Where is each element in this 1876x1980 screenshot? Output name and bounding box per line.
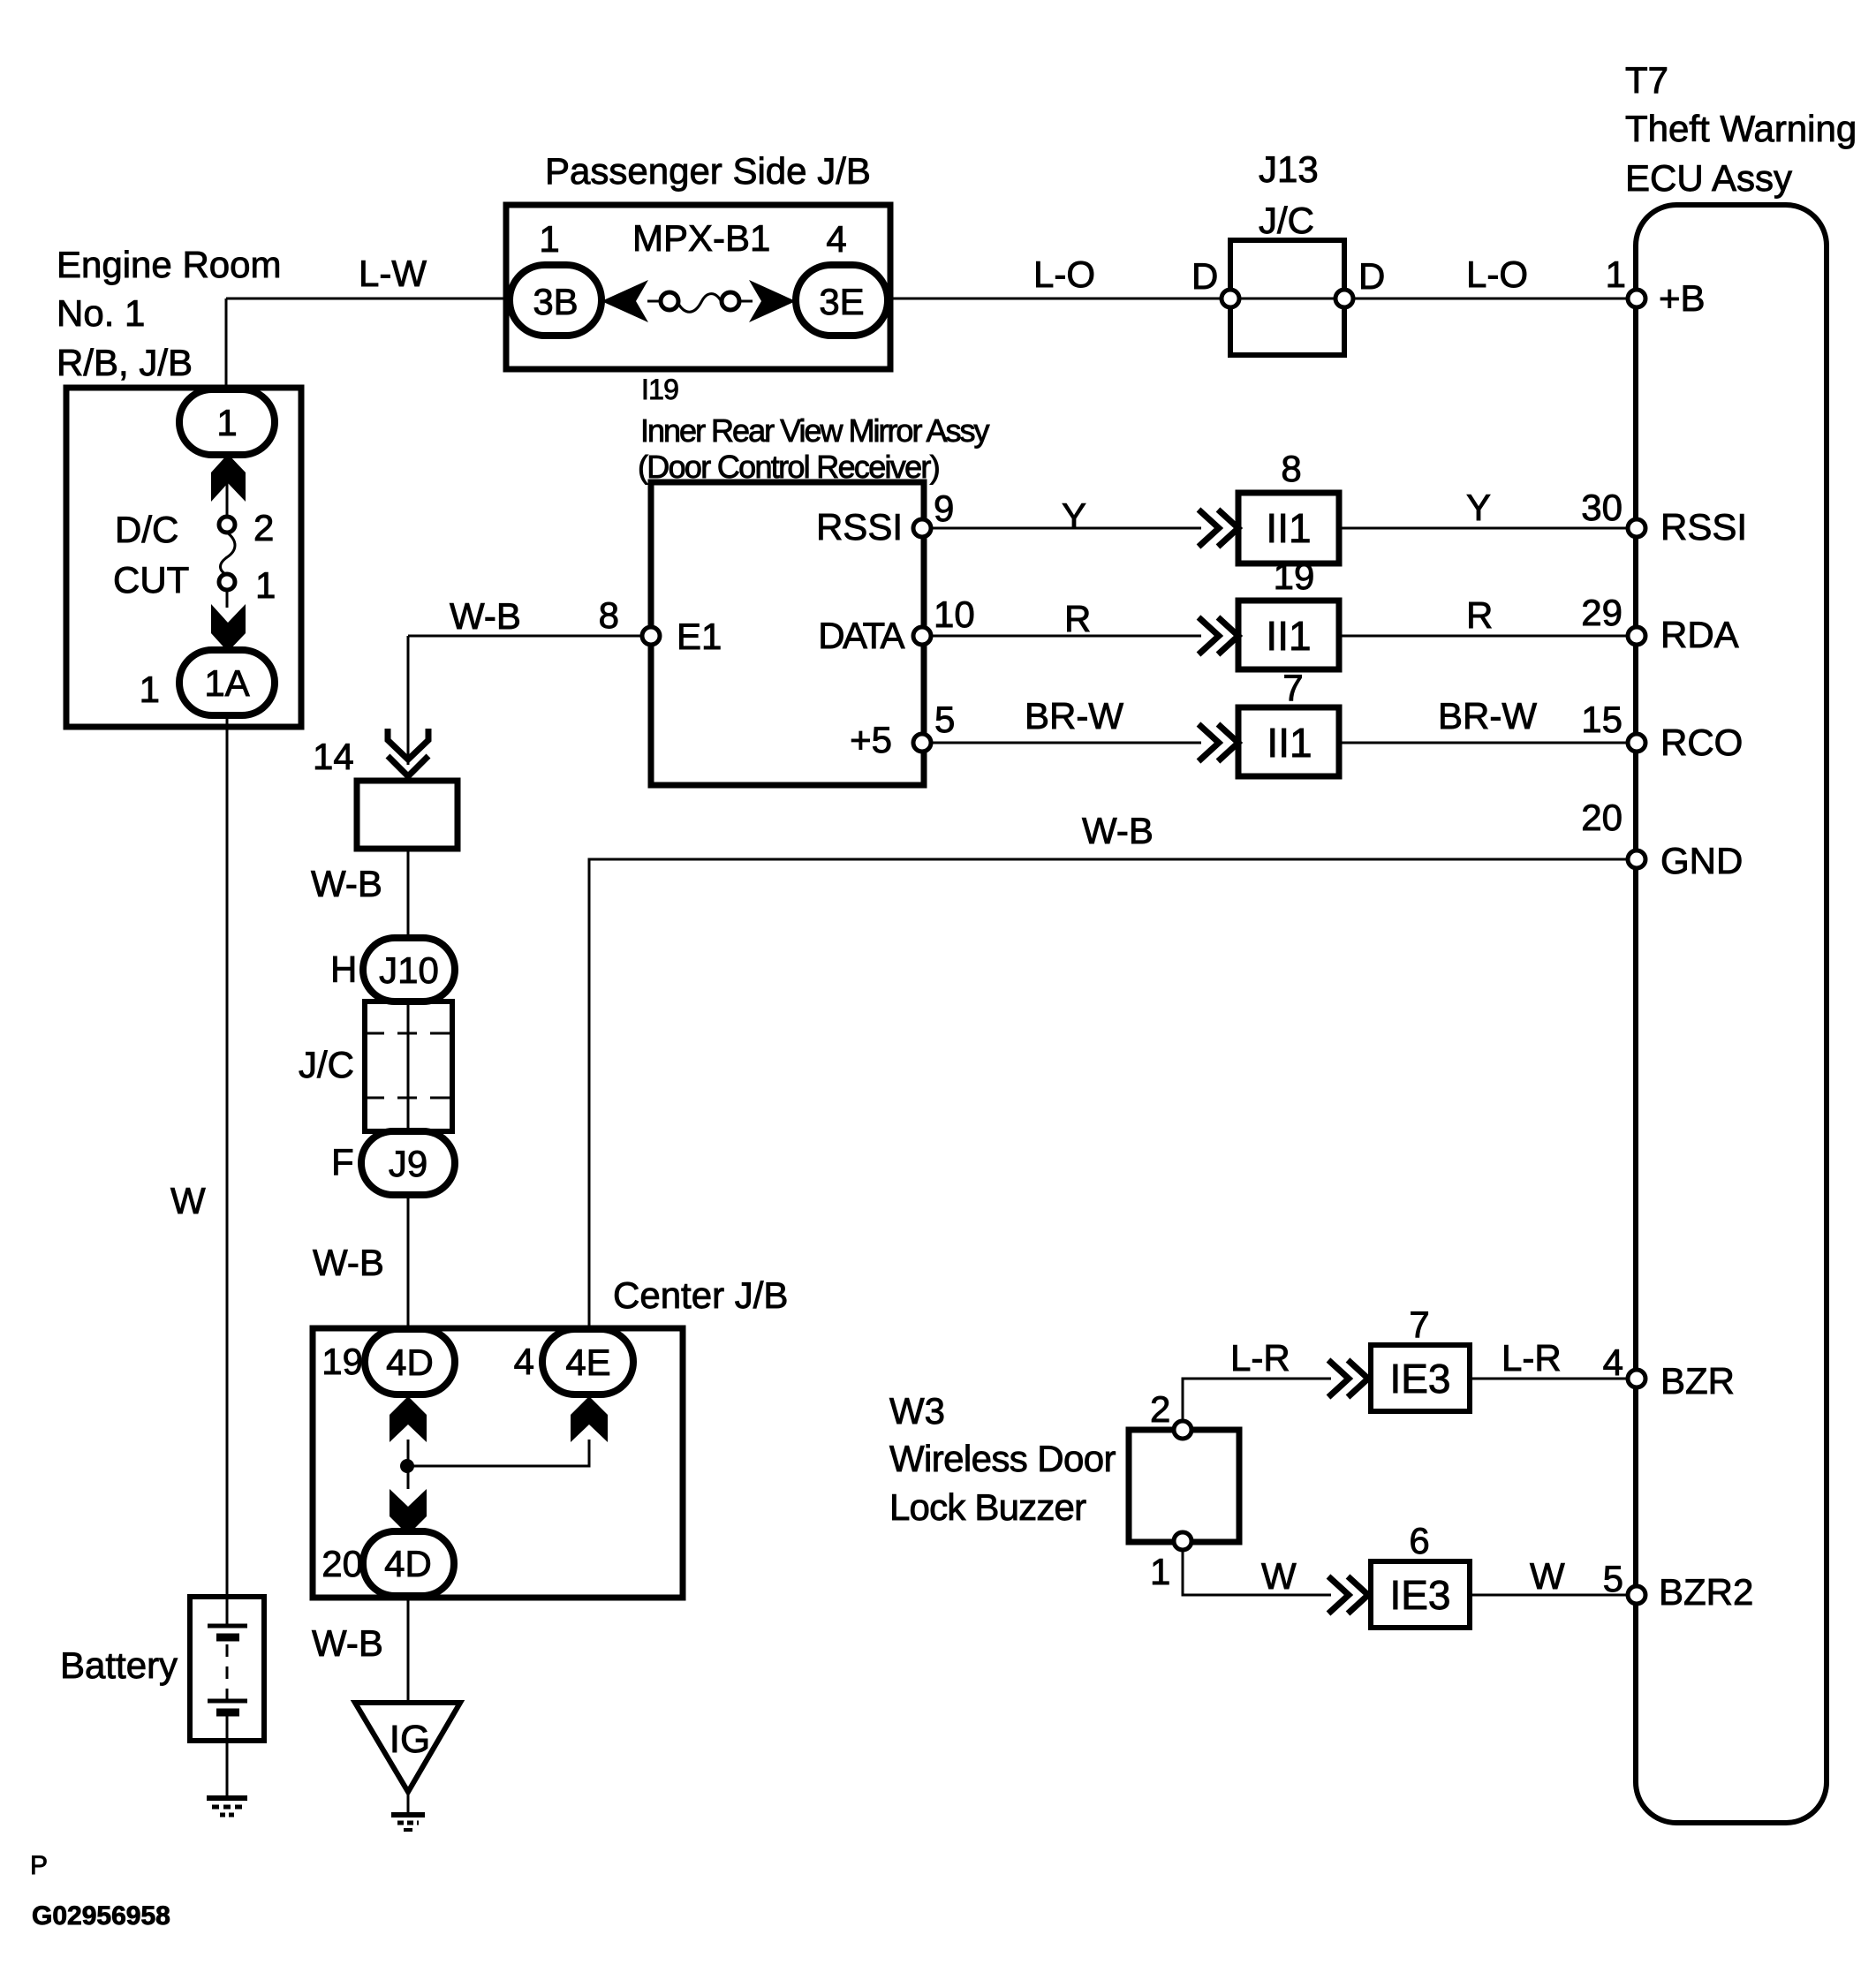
svg-text:4D: 4D	[384, 1543, 432, 1584]
chevrons before II1 row RSSI	[1199, 510, 1238, 547]
svg-text:L-W: L-W	[359, 253, 427, 294]
chevrons before II1 row RDA	[1199, 617, 1238, 654]
svg-text:RCO: RCO	[1660, 722, 1743, 763]
wire Y from II1 to ECU pin30	[1339, 527, 1630, 530]
svg-text:D/C: D/C	[115, 509, 178, 550]
battery dashed center	[226, 1644, 229, 1699]
oval connector 4E pin4	[542, 1329, 633, 1394]
Wireless Door Lock Buzzer box	[1129, 1430, 1239, 1542]
port circle ECU BZR2 pin5	[1628, 1586, 1645, 1604]
junction dot	[400, 1459, 414, 1473]
svg-text:RSSI: RSSI	[816, 506, 903, 548]
oval connector 1 top of D/C CUT	[179, 389, 275, 455]
Passenger Side J/B box	[506, 205, 890, 369]
J/C dashed line lower	[365, 1097, 452, 1100]
svg-text:II1: II1	[1267, 720, 1312, 766]
svg-text:20: 20	[321, 1543, 363, 1584]
open connector arrow above box 14	[388, 729, 428, 776]
chevrons before IE3 row BZR	[1328, 1360, 1368, 1397]
fuse circle right	[722, 292, 739, 310]
wire BR-W from +5 pin5 to II1	[931, 742, 1201, 744]
svg-text:Passenger Side J/B: Passenger Side J/B	[545, 150, 871, 192]
svg-text:J/C: J/C	[299, 1044, 354, 1085]
oval connector 1A bottom of D/C CUT	[179, 650, 275, 715]
port circle buzzer pin2	[1174, 1421, 1191, 1439]
svg-text:RSSI: RSSI	[1660, 506, 1747, 548]
IG fuse triangle	[355, 1703, 460, 1792]
svg-text:4: 4	[514, 1341, 534, 1382]
svg-text:II1: II1	[1266, 505, 1311, 551]
svg-text:W-B: W-B	[1082, 810, 1154, 851]
svg-text:Y: Y	[1466, 487, 1491, 528]
svg-text:G02956958: G02956958	[32, 1901, 170, 1931]
svg-text:CUT: CUT	[113, 559, 189, 601]
svg-text:2: 2	[253, 507, 274, 548]
fuse circle left	[661, 292, 678, 310]
arrow black down above 4D pin20	[390, 1489, 427, 1535]
svg-text:9: 9	[934, 487, 954, 529]
svg-text:4: 4	[1603, 1341, 1623, 1383]
svg-text:GND: GND	[1660, 840, 1743, 881]
wire buzzer pin2 to IE3	[1183, 1379, 1331, 1422]
svg-text:J13: J13	[1259, 148, 1319, 190]
wire R from II1 to ECU pin29	[1339, 635, 1630, 638]
svg-text:R: R	[1466, 594, 1493, 636]
wire W-B to E1 pin 8	[408, 636, 643, 765]
wire inside D/C CUT switch	[226, 454, 229, 608]
svg-text:3B: 3B	[533, 281, 578, 322]
oval connector J10	[363, 938, 455, 1001]
wire L-R from IE3 to ECU pin4	[1470, 1378, 1630, 1380]
fuse squiggle	[677, 294, 722, 313]
svg-text:IE3: IE3	[1389, 1356, 1450, 1402]
switch squiggle	[221, 533, 236, 575]
svg-text:1: 1	[255, 564, 276, 606]
svg-text:ECU Assy: ECU Assy	[1625, 157, 1792, 199]
svg-text:L-R: L-R	[1502, 1337, 1562, 1379]
svg-text:J/C: J/C	[1259, 200, 1314, 241]
svg-text:W-B: W-B	[312, 1622, 383, 1664]
IE3 box row BZR2	[1371, 1561, 1470, 1628]
port circle mirror +5 pin5	[913, 734, 931, 752]
svg-text:1: 1	[539, 218, 559, 260]
D/C CUT box	[66, 388, 301, 727]
svg-text:10: 10	[934, 593, 975, 635]
svg-text:RDA: RDA	[1660, 614, 1739, 655]
wire Y from RSSI pin9 to II1	[931, 527, 1201, 530]
svg-text:1: 1	[140, 669, 160, 710]
svg-text:5: 5	[1603, 1558, 1623, 1599]
oval connector 4D pin19	[365, 1329, 455, 1394]
arrow black left in MPX-B1	[601, 280, 648, 322]
svg-text:7: 7	[1282, 667, 1303, 708]
svg-text:D: D	[1191, 255, 1218, 297]
chevrons before IE3 row BZR2	[1328, 1576, 1368, 1613]
svg-text:W-B: W-B	[311, 863, 382, 904]
wire J/C center line	[407, 1001, 410, 1131]
J/C junction box	[365, 1001, 452, 1131]
svg-text:W: W	[1530, 1555, 1565, 1597]
svg-text:1: 1	[216, 402, 237, 443]
port circle mirror E1 pin8	[642, 627, 660, 645]
svg-text:I19: I19	[641, 374, 678, 405]
Theft Warning ECU Assy box	[1636, 205, 1827, 1823]
svg-text:D: D	[1358, 255, 1385, 297]
IG ground symbol	[391, 1812, 425, 1818]
switch contact circle 1	[219, 574, 235, 590]
svg-text:1: 1	[1606, 253, 1626, 295]
svg-text:BR-W: BR-W	[1025, 695, 1123, 737]
wire fuse link inside MPX-B1	[647, 300, 753, 303]
svg-text:+5: +5	[850, 719, 892, 760]
port circle J13 right D	[1335, 290, 1353, 307]
svg-text:W: W	[170, 1180, 206, 1221]
wire 4D to junction to arrow	[407, 1440, 410, 1489]
port circle ECU RSSI pin30	[1628, 519, 1645, 537]
wire L-O from J13 to +B pin1	[1352, 298, 1630, 300]
svg-text:15: 15	[1581, 699, 1623, 740]
svg-text:1: 1	[1150, 1551, 1170, 1592]
svg-text:L-O: L-O	[1466, 253, 1528, 295]
IE3 box row BZR	[1371, 1345, 1470, 1411]
wire vertical into D/C CUT oval 1	[225, 299, 228, 394]
II1 box row RSSI	[1238, 493, 1339, 563]
svg-text:MPX-B1: MPX-B1	[632, 217, 770, 259]
wire buzzer pin1 to IE3	[1183, 1549, 1331, 1595]
svg-text:J9: J9	[389, 1143, 427, 1184]
svg-text:E1: E1	[677, 616, 722, 657]
wire inside J13	[1238, 298, 1336, 300]
svg-text:29: 29	[1581, 592, 1623, 633]
Inner Rear View Mirror box	[651, 482, 924, 785]
oval connector 3E	[796, 265, 888, 336]
svg-text:(Door Control Receiver): (Door Control Receiver)	[638, 449, 939, 485]
svg-text:T7: T7	[1625, 59, 1668, 101]
port circle mirror RSSI pin9	[913, 519, 931, 537]
svg-text:W-B: W-B	[450, 595, 521, 637]
svg-text:4D: 4D	[386, 1341, 434, 1383]
arrow black right in MPX-B1	[749, 280, 796, 322]
svg-text:14: 14	[313, 736, 354, 777]
svg-text:H: H	[330, 948, 357, 990]
arrow black up in D/C CUT	[211, 454, 246, 502]
svg-text:F: F	[331, 1141, 354, 1183]
svg-text:Wireless Door: Wireless Door	[889, 1438, 1116, 1479]
wire W-B from J9 to 4D	[407, 1195, 410, 1333]
svg-text:30: 30	[1581, 487, 1623, 528]
port circle buzzer pin1	[1174, 1532, 1191, 1550]
svg-text:5: 5	[934, 699, 955, 740]
Battery box	[190, 1597, 264, 1741]
svg-text:Lock Buzzer: Lock Buzzer	[889, 1486, 1086, 1528]
wire R from DATA pin10 to II1	[931, 635, 1201, 638]
svg-text:Y: Y	[1062, 495, 1086, 537]
arrow black up below 4E	[571, 1396, 608, 1442]
battery ground symbol	[207, 1795, 247, 1801]
wire W from IE3 to ECU pin5	[1470, 1594, 1630, 1597]
svg-text:W3: W3	[889, 1390, 945, 1432]
II1 box row RCO	[1238, 707, 1339, 776]
oval connector J9	[361, 1131, 455, 1195]
svg-text:J10: J10	[379, 949, 439, 991]
svg-text:L-O: L-O	[1033, 253, 1095, 295]
svg-text:BZR: BZR	[1660, 1360, 1735, 1402]
port circle ECU RCO pin15	[1628, 734, 1645, 752]
svg-text:Theft Warning: Theft Warning	[1625, 108, 1857, 149]
port circle ECU BZR pin4	[1628, 1370, 1645, 1387]
svg-text:R/B, J/B: R/B, J/B	[57, 342, 193, 383]
chevrons before II1 row RCO	[1199, 724, 1238, 761]
svg-text:20: 20	[1581, 797, 1623, 838]
svg-text:II1: II1	[1266, 613, 1311, 659]
svg-text:No. 1: No. 1	[57, 292, 145, 334]
svg-text:2: 2	[1150, 1388, 1170, 1430]
wire IG apex to ground	[407, 1792, 410, 1815]
svg-text:19: 19	[1274, 555, 1315, 597]
wire junction horizontal	[407, 1440, 589, 1466]
svg-text:Engine Room: Engine Room	[57, 244, 281, 285]
J/C dashed line upper	[365, 1032, 452, 1035]
battery plate short bottom	[216, 1709, 239, 1717]
svg-text:L-R: L-R	[1230, 1337, 1290, 1379]
svg-text:BZR2: BZR2	[1659, 1571, 1753, 1613]
svg-text:R: R	[1064, 598, 1091, 639]
svg-text:BR-W: BR-W	[1438, 695, 1537, 737]
svg-text:Inner Rear View Mirror Assy: Inner Rear View Mirror Assy	[640, 412, 989, 449]
oval connector 4D pin20	[363, 1531, 454, 1596]
svg-text:6: 6	[1409, 1520, 1429, 1561]
battery plate long bottom	[208, 1699, 247, 1704]
svg-text:IE3: IE3	[1389, 1572, 1450, 1618]
svg-text:3E: 3E	[819, 281, 864, 322]
svg-text:1A: 1A	[204, 662, 249, 704]
svg-text:4: 4	[826, 218, 846, 260]
svg-text:4E: 4E	[565, 1341, 610, 1383]
switch contact circle 2	[219, 517, 235, 533]
wire W-B GND from ECU pin20	[589, 859, 1630, 1329]
port circle ECU RDA pin29	[1628, 627, 1645, 645]
svg-text:19: 19	[321, 1341, 363, 1382]
port circle mirror DATA pin10	[913, 627, 931, 645]
svg-text:8: 8	[1281, 448, 1301, 489]
wire W from 1A to Battery	[226, 715, 229, 1626]
svg-text:DATA: DATA	[818, 615, 904, 656]
svg-text:P: P	[30, 1851, 48, 1880]
svg-text:7: 7	[1409, 1304, 1429, 1345]
svg-text:W: W	[1261, 1555, 1297, 1597]
svg-text:8: 8	[599, 594, 619, 636]
oval connector 3B	[510, 265, 601, 336]
port circle ECU GND pin20	[1628, 850, 1645, 868]
port circle ECU +B pin1	[1628, 290, 1645, 307]
svg-text:IG: IG	[390, 1718, 430, 1761]
svg-text:+B: +B	[1659, 277, 1706, 319]
battery plate short top	[216, 1634, 239, 1642]
II1 box row RDA	[1238, 601, 1339, 669]
wire L-W from Engine Room to 3B	[226, 298, 510, 300]
wire 4D pin20 to IG	[407, 1596, 410, 1703]
svg-text:Battery: Battery	[60, 1644, 178, 1686]
wire battery to ground	[226, 1713, 229, 1796]
svg-text:Center J/B: Center J/B	[613, 1274, 788, 1316]
arrow black down in D/C CUT	[211, 604, 246, 652]
connector box 14	[357, 781, 458, 849]
arrow black up below 4D	[390, 1396, 427, 1442]
wire L-O from 3E to J13	[888, 298, 1223, 300]
wire from box14 to J10	[407, 849, 410, 941]
port circle J13 left D	[1222, 290, 1239, 307]
J13 J/C box	[1230, 240, 1344, 355]
wire BR-W from II1 to ECU pin15	[1339, 742, 1630, 744]
battery plate long top	[208, 1624, 247, 1629]
svg-text:W-B: W-B	[313, 1242, 384, 1283]
Center J/B box	[313, 1328, 683, 1598]
